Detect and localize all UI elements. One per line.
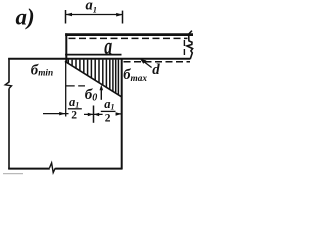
bottom dimension line segments xyxy=(43,113,69,115)
bottom dim arrows at middle tick xyxy=(88,113,94,117)
slab dashed inner top line xyxy=(69,37,188,39)
break symbol on wall bottom xyxy=(50,163,56,173)
faint scan ghost line bottom-left xyxy=(3,173,23,175)
wall right edge xyxy=(121,59,123,170)
slab left edge xyxy=(65,33,67,62)
top dimension right tick xyxy=(122,11,124,24)
fraction bar left a1/2 xyxy=(68,108,82,110)
top dimension left tick xyxy=(65,10,67,24)
top dimension left arrowhead xyxy=(66,13,73,17)
dashed soffit line under cantilever xyxy=(124,61,191,63)
sigma0 level dashed line xyxy=(66,85,85,87)
sigma0 arrow xyxy=(100,87,102,100)
d leader line xyxy=(142,60,152,68)
slab right end break line xyxy=(187,31,193,59)
svg-text:2: 2 xyxy=(105,112,111,124)
top dimension right arrowhead xyxy=(116,13,122,17)
hatch strips of stress diagram xyxy=(68,60,118,95)
fraction bar right a1/2 xyxy=(101,110,116,112)
svg-text:a: a xyxy=(104,34,112,60)
bottom dimension middle tick xyxy=(93,106,95,123)
wall left edge (upper segment) xyxy=(8,58,10,83)
svg-text:бmax: бmax xyxy=(123,67,147,84)
wall bottom line (right of break) xyxy=(55,168,122,170)
svg-text:d: d xyxy=(152,62,160,78)
slab dashed right edge xyxy=(183,40,185,55)
wall left edge (lower segment) xyxy=(8,89,10,170)
wall bottom line (left of break) xyxy=(8,168,50,170)
svg-text:a1: a1 xyxy=(86,0,98,15)
top dimension line a1 xyxy=(66,14,123,16)
svg-text:a1: a1 xyxy=(104,97,114,112)
svg-text:2: 2 xyxy=(71,110,77,122)
slab bottom edge (over bearing) xyxy=(65,54,121,56)
d leader arrowhead xyxy=(140,59,147,64)
stress diagram sloped bottom line xyxy=(65,61,122,97)
svg-text:бmin: бmin xyxy=(31,62,53,78)
slab top edge xyxy=(65,33,193,36)
bottom dim arrow into left tick xyxy=(59,112,65,116)
svg-text:б0: б0 xyxy=(85,87,98,103)
extension line below slab left edge xyxy=(65,62,67,117)
svg-text:a): a) xyxy=(16,5,35,30)
break symbol on wall left edge xyxy=(5,82,11,89)
bottom dim right arrowhead xyxy=(116,112,122,116)
wall top / slab soffit line xyxy=(8,58,190,60)
svg-text:a1: a1 xyxy=(69,95,79,110)
